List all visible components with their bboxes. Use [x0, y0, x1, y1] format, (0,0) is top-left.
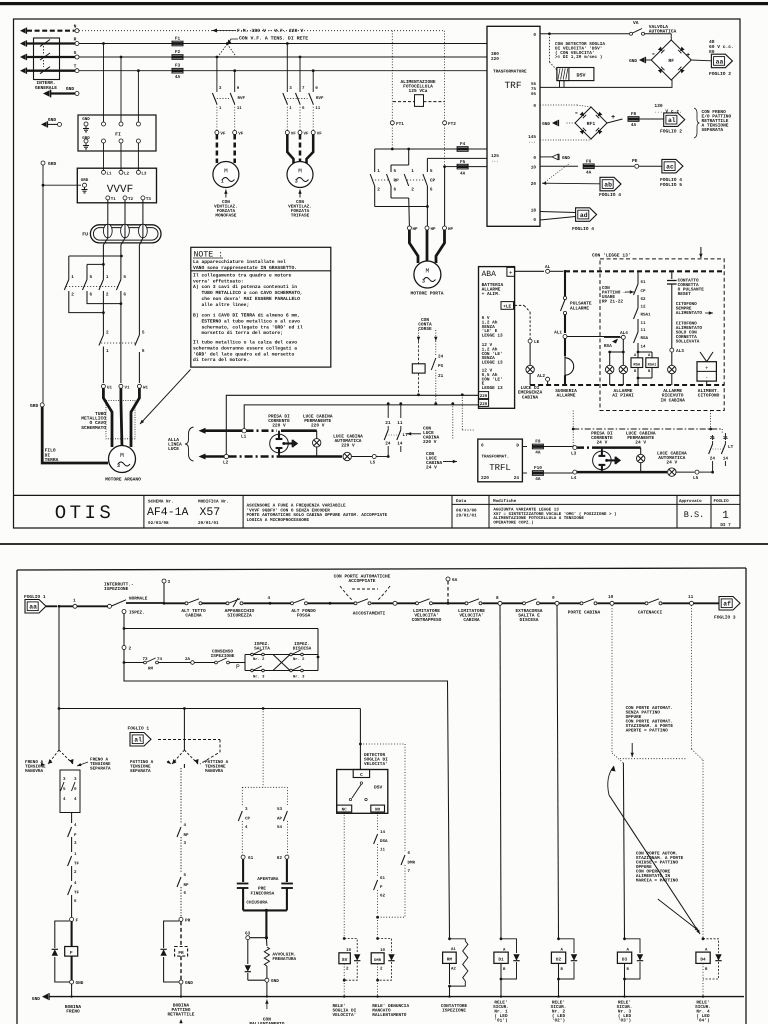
- svg-text:Modifiche: Modifiche: [493, 498, 517, 504]
- svg-text:CP: CP: [245, 817, 251, 822]
- svg-text:AF4-1A: AF4-1A: [147, 506, 189, 519]
- svg-text:ESTERNO al tubo metallico o al: ESTERNO al tubo metallico o al cavo: [193, 318, 300, 324]
- svg-text:F10: F10: [534, 466, 542, 471]
- curved arrow to rung: [608, 766, 614, 795]
- svg-text:1: 1: [221, 179, 224, 185]
- lamp luce cabina permanente 220: [316, 431, 318, 439]
- svg-text:DSA: DSA: [380, 839, 388, 844]
- fuse F8 4A: [607, 119, 623, 123]
- svg-text:HP: HP: [448, 227, 454, 232]
- flag ac foglio 4 5: [662, 159, 683, 173]
- rectifier RF1 bridge: [575, 107, 607, 139]
- svg-text:GRD: GRD: [81, 178, 89, 183]
- svg-text:130: 130: [654, 103, 663, 109]
- terminal AL3: [671, 292, 673, 348]
- svg-text:aa: aa: [29, 604, 37, 611]
- svg-text:RESET: RESET: [678, 292, 692, 297]
- svg-text:PE: PE: [632, 158, 638, 164]
- subchain riser to ispez tee: [317, 629, 319, 655]
- D2 diode loop: [559, 939, 575, 953]
- contact apparecchio sicurezza: [226, 602, 229, 605]
- svg-text:ISPEZIONE: ISPEZIONE: [211, 654, 235, 659]
- svg-text:ac: ac: [666, 164, 674, 171]
- svg-text:U1: U1: [107, 385, 113, 390]
- svg-text:GND: GND: [562, 156, 570, 161]
- svg-text:CABINA: CABINA: [463, 617, 480, 623]
- freno diode branch: [247, 940, 249, 964]
- svg-text:F3: F3: [175, 64, 181, 69]
- svg-text:FT1: FT1: [396, 122, 404, 127]
- wire L3 row: [577, 446, 592, 449]
- freno selector fork: [58, 709, 60, 751]
- svg-text:LOGICA A MICROPROCESSORE: LOGICA A MICROPROCESSORE: [247, 518, 310, 523]
- wire to lamp 220: [281, 429, 317, 432]
- contact porte cabina: [580, 602, 583, 605]
- dash-dot rail 24V top: [573, 428, 722, 430]
- svg-text:RF1: RF1: [587, 121, 596, 127]
- page 2 border left: [16, 570, 18, 1024]
- svg-text:B.S.: B.S.: [684, 510, 704, 520]
- NO wire with DSA TP contacts: [377, 812, 379, 830]
- ABA plus pin box: [507, 267, 515, 276]
- detector NC NO boxes: [337, 805, 352, 812]
- motor ventilazione trifase M 3~: [287, 162, 313, 188]
- terminal ispez: [122, 610, 126, 614]
- svg-text:+: +: [705, 366, 708, 372]
- svg-text:0: 0: [533, 104, 536, 109]
- svg-text:SEPARATA: SEPARATA: [702, 127, 724, 133]
- svg-text:GND: GND: [66, 86, 75, 92]
- svg-text:Nr. 3: Nr. 3: [293, 675, 305, 680]
- citofono battery box: [697, 362, 716, 381]
- svg-text:FOGLIO 4: FOGLIO 4: [572, 226, 594, 232]
- socket presa 24: [601, 448, 603, 452]
- bell suoneria: [565, 358, 574, 375]
- svg-text:62: 62: [277, 856, 283, 861]
- wire 0 to RF1 dotted: [540, 104, 577, 106]
- svg-text:GND: GND: [76, 981, 84, 986]
- transformer TRFL box: [478, 439, 523, 482]
- terminal 2: [123, 614, 125, 646]
- svg-text:DSV: DSV: [576, 73, 585, 79]
- wire 220 upper to L2: [226, 395, 478, 455]
- DSV pin stubs: [559, 81, 561, 88]
- svg-text:DMR: DMR: [374, 958, 382, 963]
- svg-text:DISCESA: DISCESA: [293, 647, 312, 652]
- svg-text:L3: L3: [571, 452, 577, 457]
- svg-text:5: 5: [394, 169, 397, 174]
- svg-text:CATENACCI: CATENACCI: [638, 610, 663, 616]
- wires 18 0 to ad flag: [540, 212, 576, 213]
- GND arrow at RF: [646, 59, 651, 61]
- DMR aux contact branch: [404, 744, 406, 851]
- svg-text:TRIFASE: TRIFASE: [291, 214, 310, 219]
- svg-text:'01'): '01'): [494, 1018, 507, 1024]
- svg-text:GND: GND: [48, 117, 57, 123]
- dotted diagonal 20: [545, 163, 570, 182]
- bus T with arrow: [20, 68, 25, 73]
- svg-text:6: 6: [90, 293, 93, 298]
- al dashed link: [158, 739, 220, 741]
- svg-text:SOLLEVATA: SOLLEVATA: [676, 340, 700, 345]
- svg-text:MOTORE ARGANO: MOTORE ARGANO: [105, 477, 141, 483]
- svg-text:Il tubo metallico o la calza d: Il tubo metallico o la calza del cavo: [193, 340, 297, 346]
- inverter VVVF box: [77, 168, 156, 203]
- legge13 bottom bus dashed bold: [530, 384, 724, 386]
- svg-text:LEGGE 13: LEGGE 13: [482, 386, 503, 391]
- flag ad foglio 4: [576, 208, 597, 222]
- fuse F6 4A wire to ac: [540, 165, 578, 167]
- fuse F2: [172, 55, 183, 60]
- svg-text:2: 2: [129, 647, 132, 652]
- detector feeder: [359, 709, 361, 770]
- svg-text:PR: PR: [185, 918, 191, 923]
- speed detector DSV box: [557, 68, 594, 81]
- svg-text:LUCE: LUCE: [168, 446, 179, 452]
- svg-text:La apparecchiature installate: La apparecchiature installate nel: [193, 259, 286, 265]
- D1 diode loop: [501, 939, 517, 953]
- svg-text:RSA1: RSA1: [641, 313, 652, 318]
- svg-text:4: 4: [268, 596, 271, 601]
- pin 0 GND stub: [540, 156, 552, 158]
- svg-text:14: 14: [641, 345, 647, 350]
- subchain bottom loop to RM: [123, 661, 126, 664]
- svg-text:CORSE: CORSE: [418, 326, 432, 332]
- svg-text:RSA: RSA: [604, 344, 612, 349]
- svg-text:SEPARATA: SEPARATA: [130, 769, 151, 774]
- svg-text:62: 62: [641, 297, 647, 302]
- svg-text:VVVF: VVVF: [107, 184, 133, 196]
- svg-text:CABINA: CABINA: [185, 613, 202, 619]
- flag af foglio 3: [719, 597, 740, 611]
- terminal U1 V1 W1: [101, 384, 105, 388]
- wire with fuse F4: [375, 148, 457, 150]
- svg-text:24 V: 24 V: [666, 460, 677, 466]
- svg-text:AGGIUNTA VARIANTE LEGGE 13: AGGIUNTA VARIANTE LEGGE 13: [493, 508, 559, 513]
- svg-text:24: 24: [438, 355, 444, 360]
- label con luce cabina 220 V with arrow: [407, 433, 421, 435]
- svg-text:alle altre linee;: alle altre linee;: [193, 302, 249, 308]
- svg-text:1: 1: [377, 169, 380, 174]
- svg-text:95: 95: [531, 92, 537, 97]
- svg-text:SCHEMA Nr.: SCHEMA Nr.: [148, 499, 174, 504]
- svg-text:AP: AP: [277, 817, 283, 822]
- svg-text:DI 7: DI 7: [720, 523, 731, 528]
- contactor grid wires: [69, 255, 122, 257]
- svg-text:20: 20: [531, 182, 537, 187]
- svg-text:VANO sono rappresentate IN GRA: VANO sono rappresentate IN GRASSETTO.: [193, 265, 297, 271]
- wire L1 dash to presa: [247, 429, 278, 432]
- svg-text:HP: HP: [431, 227, 437, 232]
- alarm vertical bold: [564, 271, 566, 296]
- label con rallentamento: [266, 1000, 268, 1010]
- pattino rung dotted: [620, 758, 686, 760]
- svg-text:4A: 4A: [535, 451, 541, 456]
- terminal L5 220 row: [352, 456, 372, 458]
- contact catenacci: [645, 602, 648, 605]
- motor argano M 3~: [109, 446, 136, 473]
- svg-text:AL1: AL1: [554, 331, 562, 336]
- svg-text:F6: F6: [586, 159, 592, 164]
- svg-text:0: 0: [533, 33, 536, 38]
- svg-text:1: 1: [411, 169, 414, 174]
- svg-text:NORMALE: NORMALE: [129, 597, 148, 602]
- svg-text:54: 54: [277, 825, 283, 830]
- svg-text:220 V: 220 V: [272, 423, 286, 429]
- svg-text:6: 6: [394, 188, 397, 193]
- svg-text:24: 24: [385, 442, 391, 447]
- svg-text:11: 11: [397, 421, 403, 426]
- svg-text:0: 0: [533, 218, 536, 223]
- svg-text:FU: FU: [82, 232, 88, 238]
- terminal GND pattino: [179, 980, 183, 984]
- svg-text:schermato dovranno essere coll: schermato dovranno essere collegati a: [193, 345, 297, 351]
- svg-text:Nr. 2: Nr. 2: [293, 657, 305, 662]
- freno chain contacts: [71, 813, 73, 824]
- svg-text:L4: L4: [571, 476, 577, 481]
- svg-text:-: -: [705, 375, 708, 381]
- svg-text:1: 1: [106, 349, 109, 354]
- porta motor wires bold: [409, 230, 418, 263]
- svg-text:29/01/01: 29/01/01: [456, 513, 477, 519]
- wire with fuse F5 4A: [445, 166, 457, 168]
- freno contact block: [60, 770, 80, 813]
- svg-text:11: 11: [641, 321, 647, 326]
- svg-text:SICUREZZA: SICUREZZA: [227, 613, 252, 619]
- svg-text:-: -: [651, 50, 656, 59]
- RM resistor loop: [450, 939, 466, 941]
- svg-text:10: 10: [608, 595, 614, 600]
- svg-text:RVF: RVF: [316, 96, 324, 101]
- lamp permanente 24: [640, 448, 642, 455]
- svg-text:F: F: [76, 918, 79, 923]
- ABA +LE pin box: [501, 302, 514, 310]
- wires to VF monofase: [216, 104, 218, 131]
- svg-text:8: 8: [496, 596, 499, 601]
- svg-text:NO: NO: [375, 808, 381, 813]
- svg-text:75: 75: [531, 87, 537, 92]
- GRD node left: [41, 161, 45, 165]
- svg-text:GRD: GRD: [48, 161, 57, 167]
- svg-text:GND: GND: [185, 981, 193, 986]
- svg-text:GND: GND: [542, 122, 550, 127]
- valve VA valvola automatica: [540, 33, 629, 35]
- svg-text:D1: D1: [498, 958, 504, 963]
- svg-text:ALLARME: ALLARME: [557, 394, 576, 399]
- contactor contacts row 2: [102, 313, 104, 335]
- svg-text:FT2: FT2: [448, 122, 456, 127]
- svg-text:af: af: [723, 601, 731, 608]
- terminal between accostamenti and limitatore: [393, 601, 397, 605]
- svg-text:APERTURA: APERTURA: [257, 877, 278, 882]
- wire R to FI: [102, 42, 105, 45]
- svg-text:14: 14: [380, 830, 386, 835]
- svg-text:53: 53: [277, 807, 283, 812]
- svg-text:24: 24: [710, 457, 716, 462]
- alarm received lamp: [668, 365, 676, 373]
- svg-text:FINECORSA: FINECORSA: [251, 892, 275, 897]
- fotocellula supply box: [415, 95, 424, 107]
- motor ventilazione monofase M 1~: [213, 162, 239, 188]
- svg-text:5: 5: [430, 169, 433, 174]
- svg-text:RSA1: RSA1: [648, 362, 657, 367]
- svg-text:MONOFASE: MONOFASE: [215, 214, 236, 219]
- svg-text:D4: D4: [700, 958, 706, 963]
- svg-text:220 V: 220 V: [341, 443, 355, 449]
- arrows from legge13 to conta corse: [418, 330, 420, 341]
- terminal PR: [179, 917, 183, 921]
- pattino coil PR with diode: [180, 921, 182, 946]
- arrow to motor trifase: [299, 190, 301, 198]
- terminal block LT 220: [387, 402, 390, 405]
- arrow into legge box: [700, 247, 702, 258]
- svg-text:LEGGE 13: LEGGE 13: [482, 361, 503, 366]
- svg-text:HP: HP: [413, 227, 419, 232]
- svg-text:11: 11: [315, 106, 321, 111]
- terminal L3: [573, 446, 577, 450]
- rectifier RF bridge: [670, 34, 672, 40]
- svg-text:schermato, collegato tra 'GRD': schermato, collegato tra 'GRD' ed il: [193, 324, 303, 330]
- svg-text:5: 5: [123, 275, 126, 280]
- D4 diode loop dashed: [703, 939, 719, 953]
- svg-text:SEPARATA: SEPARATA: [90, 766, 111, 771]
- svg-text:FOSSA: FOSSA: [297, 613, 311, 619]
- svg-text:TERRA: TERRA: [45, 457, 59, 463]
- svg-text:Data: Data: [456, 499, 467, 504]
- svg-text:L5: L5: [693, 476, 699, 481]
- RM feeder junction: [448, 937, 451, 940]
- svg-text:TRASFORMAT.: TRASFORMAT.: [482, 455, 510, 460]
- svg-text:M: M: [224, 168, 228, 175]
- svg-text:CONTRAPPESO: CONTRAPPESO: [412, 617, 442, 623]
- svg-text:RP 21-22: RP 21-22: [602, 300, 623, 305]
- svg-text:24: 24: [514, 476, 520, 481]
- terminal L5 24 row: [695, 470, 699, 474]
- note box: [191, 247, 331, 367]
- svg-text:ad: ad: [580, 212, 588, 219]
- svg-text:0: 0: [533, 156, 536, 161]
- pattino chain contacts: [183, 764, 185, 768]
- wire T to FI: [137, 69, 140, 72]
- svg-text:al: al: [134, 737, 142, 744]
- wire 20 to ab flag: [542, 182, 600, 185]
- brace con freno pattino: [694, 108, 700, 138]
- terminal GND freno: [70, 980, 74, 984]
- main switch INTERR. GENERALE: [34, 38, 60, 80]
- vent monofase tap S: [216, 56, 219, 59]
- contact accostamenti: [354, 602, 357, 605]
- svg-text:VF: VF: [317, 132, 323, 137]
- relay RSA1 box: [646, 358, 658, 368]
- wire L2 to lamp2: [229, 455, 279, 458]
- svg-text:11: 11: [723, 436, 729, 441]
- D3 feeder dotted: [611, 605, 613, 753]
- svg-text:FOGLIO 5: FOGLIO 5: [660, 182, 682, 188]
- relay RSA box: [631, 358, 643, 368]
- svg-text:L5: L5: [370, 461, 376, 466]
- wire L4 row bold: [577, 471, 667, 474]
- svg-text:DISCESA: DISCESA: [520, 617, 539, 623]
- flag al foglio 2: [664, 113, 685, 127]
- svg-text:...: ...: [491, 159, 499, 164]
- svg-text:SCHERMATO: SCHERMATO: [81, 425, 106, 431]
- ground bus: [49, 996, 744, 998]
- svg-text:'03'): '03'): [618, 1018, 631, 1024]
- bus R with arrow: [20, 41, 25, 46]
- svg-text:4A: 4A: [175, 75, 181, 80]
- svg-text:220: 220: [480, 402, 488, 407]
- svg-text:CITOFONO: CITOFONO: [698, 393, 720, 399]
- svg-text:di terra del motore.: di terra del motore.: [193, 357, 249, 363]
- svg-text:D: D: [516, 444, 519, 449]
- svg-text:A2: A2: [451, 967, 456, 972]
- arrow from note to shield: [140, 370, 191, 425]
- lamp automatica 24: [668, 468, 676, 476]
- svg-text:F9: F9: [535, 440, 541, 445]
- arrow to motor monofase: [225, 190, 227, 198]
- svg-text:CON 'LEGGE 13': CON 'LEGGE 13': [592, 253, 631, 259]
- svg-text:A1: A1: [451, 947, 456, 952]
- svg-text:CHIUSURA: CHIUSURA: [246, 901, 267, 906]
- svg-text:55: 55: [531, 82, 537, 87]
- svg-text:14: 14: [723, 457, 729, 462]
- page 2 border top: [17, 568, 746, 570]
- svg-text:'02'): '02'): [552, 1018, 565, 1024]
- svg-text:RALLENTAMENTO: RALLENTAMENTO: [372, 1013, 407, 1018]
- svg-text:ALIMENTAZIONE FOTOCELLULA A TE: ALIMENTAZIONE FOTOCELLULA A TENSIONE: [493, 516, 584, 521]
- svg-text:TF: TF: [74, 862, 80, 867]
- svg-text:ABA: ABA: [482, 270, 497, 279]
- svg-text:L1: L1: [107, 171, 113, 176]
- svg-text:M: M: [426, 268, 430, 275]
- svg-text:ACCOPPIATE: ACCOPPIATE: [348, 578, 375, 584]
- svg-text:61: 61: [248, 856, 254, 861]
- svg-text:+ ALIM.: + ALIM.: [482, 292, 501, 297]
- detector DSV box: [337, 770, 388, 814]
- safety chain wire: [59, 605, 108, 607]
- svg-text:Nr. 2: Nr. 2: [253, 657, 265, 662]
- resistor avvolgim frenatura: [265, 938, 268, 946]
- svg-text:PORTE CABINA: PORTE CABINA: [568, 610, 601, 616]
- svg-text:10: 10: [531, 166, 537, 171]
- svg-text:CABINA: CABINA: [522, 394, 539, 400]
- pattino selector fork: [183, 709, 185, 751]
- svg-text:V1: V1: [125, 385, 131, 390]
- svg-text:L1: L1: [241, 435, 247, 440]
- motor feed wires bold: [103, 388, 112, 447]
- svg-text:VF: VF: [291, 132, 297, 137]
- fotocellula dashed wiring: [391, 31, 393, 121]
- svg-text:ACCOSTAMENTI: ACCOSTAMENTI: [353, 611, 386, 617]
- earth wire to motor bold: [42, 407, 108, 463]
- svg-text:al: al: [668, 117, 676, 124]
- svg-text:RF: RF: [668, 58, 674, 64]
- svg-text:A) con 3 cavi di potenza conte: A) con 3 cavi di potenza contenuti in: [193, 284, 297, 290]
- svg-text:RM: RM: [447, 958, 453, 963]
- svg-text:LEGGE 13: LEGGE 13: [482, 334, 503, 339]
- ferrite core FU: [90, 225, 161, 243]
- terminal block LT 24: [712, 435, 714, 440]
- svg-text:12: 12: [641, 305, 647, 310]
- svg-text:ALIMENTATO: ALIMENTATO: [676, 311, 703, 316]
- svg-text:AI PIANI: AI PIANI: [612, 394, 634, 399]
- svg-text:FOGLIO: FOGLIO: [714, 499, 730, 504]
- svg-text:PR: PR: [178, 951, 184, 956]
- svg-text:11: 11: [380, 848, 386, 853]
- svg-text:6A: 6A: [452, 578, 458, 583]
- svg-text:21: 21: [385, 421, 391, 426]
- svg-text:29/01/01: 29/01/01: [198, 520, 219, 526]
